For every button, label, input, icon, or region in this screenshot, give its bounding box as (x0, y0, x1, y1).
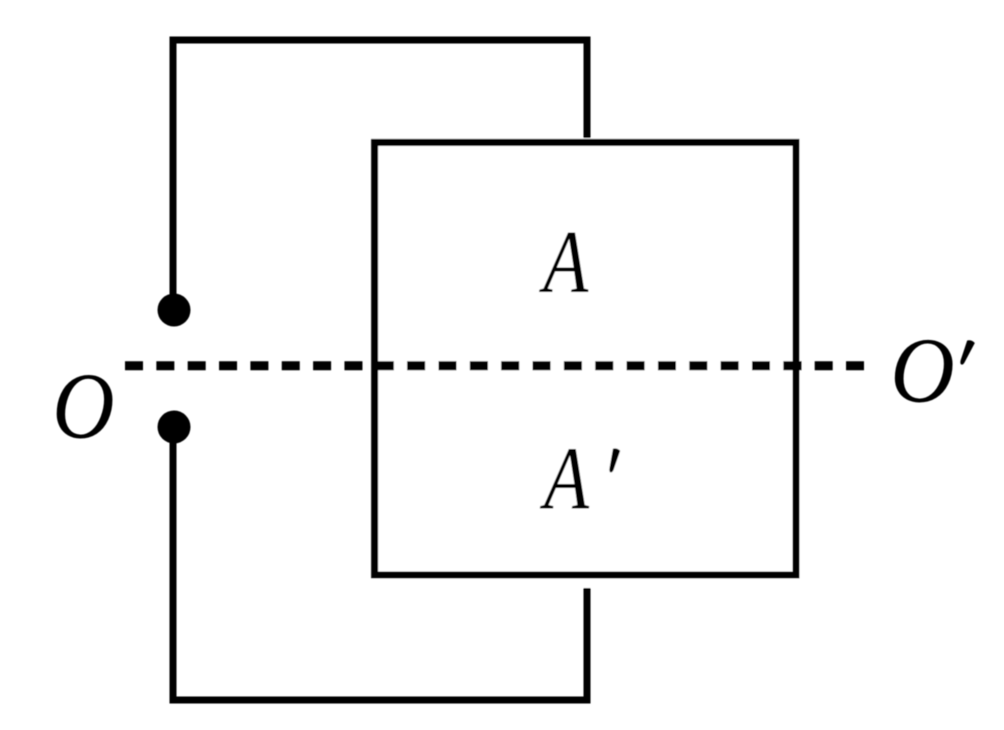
wire outer loop (left-bottom/bottom/right-bottom portion) (173, 427, 587, 700)
white halo under square (371, 138, 800, 588)
square plate A (375, 142, 796, 575)
svg-text:O: O (52, 353, 114, 459)
label O' letter (890, 319, 954, 422)
svg-text:A: A (539, 212, 589, 311)
label O (52, 353, 114, 459)
label A' letter (539, 429, 589, 528)
svg-text:A: A (539, 429, 589, 528)
svg-text:O: O (890, 319, 954, 422)
terminal dot lower (158, 411, 191, 444)
label A (539, 212, 589, 311)
label O' prime mark (960, 340, 974, 364)
label A' prime mark (609, 448, 620, 472)
dashed axis line O-O' (125, 361, 864, 370)
terminal dot upper (158, 294, 191, 327)
wire outer loop (left/top/right-top portion) (173, 40, 587, 310)
